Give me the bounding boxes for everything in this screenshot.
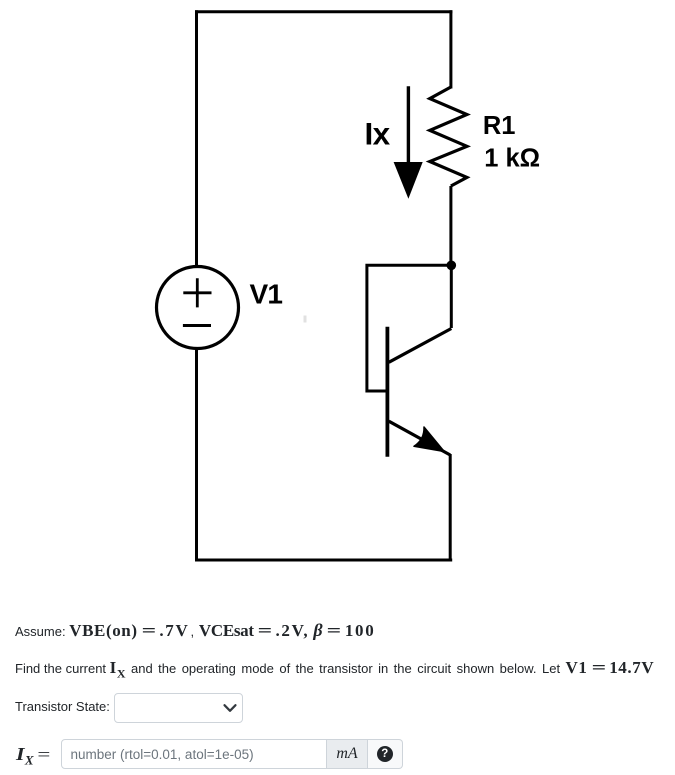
transistor Q1 [387,327,451,457]
wire resistor to node [449,186,452,265]
assumptions line [15,620,375,641]
help badge box [368,739,403,769]
wire emitter down [449,454,452,562]
circuit schematic [0,0,675,600]
wire right upper [449,10,452,88]
label 1 kOhm [484,145,540,173]
current arrow Ix [394,86,423,198]
wire left upper [195,10,198,266]
voltage source V1 [157,267,239,349]
label R1 [483,112,516,140]
svg-text:Ix: Ix [365,116,391,152]
wire node to collector [450,265,453,328]
wire base feedback loop [367,265,451,391]
faint cursor artifact [304,316,307,323]
question circle [377,746,393,762]
number input [61,739,328,769]
unit mA [327,739,368,769]
node junction dot [447,261,457,271]
label V1 [250,278,283,309]
wire top [195,10,452,13]
svg-text:1 kΩ: 1 kΩ [484,145,540,173]
svg-text:R1: R1 [483,112,516,140]
svg-text:V1: V1 [250,278,283,309]
dropdown chevron [222,702,238,714]
Ix = label [17,744,49,768]
transistor state row [15,699,110,714]
wire bottom [195,559,452,562]
wire left lower [195,349,198,562]
resistor R1 [430,87,467,186]
label Ix [365,116,391,152]
question line [15,658,654,681]
input group [61,739,403,769]
dropdown select [114,693,243,723]
